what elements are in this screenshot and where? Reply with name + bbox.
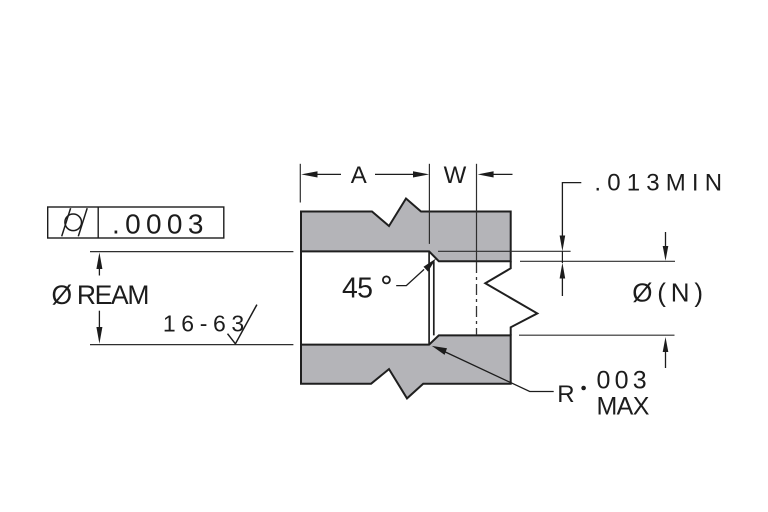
N bore dimension lower arrow [663,337,669,352]
extension line W right (solid part) [476,164,478,261]
extension line small bore top [520,260,675,262]
svg-text:003: 003 [597,366,647,394]
svg-text:16-63: 16-63 [163,311,244,337]
dimension W arrow and tail [478,171,494,177]
bore chamfer edge line 2 [433,261,435,335]
break line through small bore (zigzag) [485,261,537,335]
N bore dimension upper arrow [665,232,667,247]
R.003 leader [432,346,447,355]
extension line A/W shared [428,164,430,244]
svg-text:Ø REAM: Ø REAM [52,280,150,310]
REAM dimension vertical line arrows [96,252,102,269]
svg-text:MAX: MAX [597,393,650,421]
svg-text:45: 45 [342,273,373,305]
lower cross-section of bushing (gray) [301,335,511,398]
svg-text:W: W [444,162,467,189]
cylindricity symbol [65,214,82,231]
.013MIN leader [562,183,581,236]
svg-text:.0003: .0003 [112,209,203,240]
feature control frame box [48,207,224,238]
45 leader [396,269,424,285]
extension line small bore bottom [519,334,675,336]
REAM dimension extension line upper [90,251,293,253]
extension line .013 top (chamfer plane) [438,250,571,252]
bore chamfer edge line 1 [428,251,430,344]
extension line A left [299,164,301,203]
svg-text:R: R [557,381,574,408]
dimension A line and arrows [301,171,317,177]
decimal dot [581,386,586,391]
centerline of W depth (dash-dot) [476,262,478,335]
left end face line across bore [300,251,302,344]
upper cross-section of bushing (gray) [301,199,511,262]
surface finish checkmark [228,305,257,344]
REAM dimension extension line lower [90,344,293,346]
svg-text:A: A [351,162,367,189]
